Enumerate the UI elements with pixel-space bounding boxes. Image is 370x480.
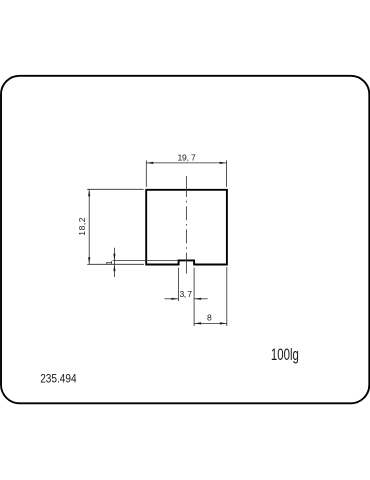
dimension 19,7 text — [177, 153, 196, 163]
dimension 1 line — [113, 248, 115, 277]
svg-text:8: 8 — [207, 313, 212, 323]
dimension 18,2 line — [88, 189, 90, 264]
dimension 3,7 extension line left — [177, 268, 179, 302]
length label 100lg — [271, 346, 299, 365]
svg-text:235.494: 235.494 — [40, 373, 76, 386]
dimension 19,7 arrow left — [147, 162, 154, 164]
dimension 8 line — [194, 322, 227, 324]
dimension 19,7 line — [146, 162, 226, 164]
dimension 18,2 text — [77, 217, 87, 235]
dimension 8 arrow right — [220, 322, 227, 324]
dimension 3,7 line left tail — [165, 298, 179, 300]
dimension 1 arrow upper — [113, 254, 115, 260]
dimension 3,7 text — [180, 289, 193, 299]
svg-text:18,2: 18,2 — [77, 217, 87, 235]
border frame — [1, 76, 369, 404]
svg-text:3, 7: 3, 7 — [180, 289, 193, 299]
dimension 18,2 extension line bottom — [87, 263, 144, 265]
dimension 8 extension line right — [226, 267, 228, 326]
dimension 3,7 arrow right — [194, 298, 201, 300]
dimension 3,7 line right tail — [194, 298, 208, 300]
dimension 18,2 arrow top — [88, 190, 90, 197]
dimension 19,7 extension line right — [226, 160, 228, 187]
dimension 19,7 extension line left — [145, 160, 147, 187]
dimension 18,2 arrow bottom — [88, 257, 90, 264]
part number 235.494 — [40, 373, 76, 386]
notch top extension line for dimension 1 — [113, 259, 179, 261]
svg-text:19, 7: 19, 7 — [177, 153, 196, 163]
dimension 3,7 arrow left — [171, 298, 178, 300]
dimension 8 text — [207, 313, 212, 323]
dimension 18,2 extension line top — [87, 188, 143, 190]
dimension 8 arrow left — [194, 322, 201, 324]
dimension 1 arrow lower — [113, 265, 115, 271]
centerline — [185, 176, 187, 274]
svg-text:1: 1 — [104, 260, 114, 265]
svg-text:100lg: 100lg — [271, 346, 299, 365]
dimension 19,7 arrow right — [220, 162, 227, 164]
dimension 1 text — [104, 260, 114, 265]
shared extension line right of 3,7 / left of 8 — [193, 268, 195, 326]
profile outline — [146, 190, 227, 265]
